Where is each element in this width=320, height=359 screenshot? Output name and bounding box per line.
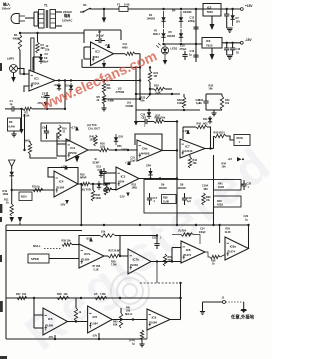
svg-text:R10 1k: R10 1k bbox=[32, 186, 41, 189]
svg-text:LM4558: LM4558 bbox=[140, 151, 150, 155]
diode D12 bbox=[97, 166, 104, 179]
resistor R45 bbox=[214, 132, 227, 149]
svg-text:TL074: TL074 bbox=[183, 253, 191, 257]
svg-text:99Ω: 99Ω bbox=[25, 139, 30, 143]
node label cap bbox=[129, 339, 135, 345]
svg-text:15.8K: 15.8K bbox=[163, 201, 169, 203]
capacitor C15 22pF bbox=[130, 157, 136, 163]
svg-text:R24: R24 bbox=[154, 84, 159, 88]
capacitor C11 zener bbox=[224, 8, 229, 28]
resistor R44 10k bbox=[222, 163, 227, 169]
resistor R12 100k bbox=[3, 189, 9, 196]
wire feedback ic4b bbox=[48, 168, 78, 185]
svg-text:D8: D8 bbox=[180, 183, 184, 187]
wire feedback ic1 bbox=[33, 54, 42, 70]
svg-text:-15V: -15V bbox=[245, 38, 253, 42]
svg-text:+15V: +15V bbox=[86, 237, 93, 241]
svg-text:103k: 103k bbox=[90, 139, 96, 142]
ground arrow led bbox=[163, 58, 168, 65]
capacitor C14 1 bbox=[98, 168, 107, 177]
wire bbox=[140, 262, 182, 285]
power +12V bbox=[125, 161, 132, 166]
resistor R56 1k bbox=[205, 252, 225, 266]
connector input B bbox=[9, 160, 16, 169]
svg-text:1N4002: 1N4002 bbox=[183, 11, 192, 14]
svg-text:D4: D4 bbox=[172, 9, 176, 13]
resistor R57 24.9K bbox=[104, 250, 128, 258]
capacitor C13b 2 bbox=[142, 117, 147, 128]
op-amp IC5c TL084 bbox=[147, 309, 170, 330]
resistor bottom bbox=[139, 330, 144, 347]
diode D11 bbox=[203, 116, 212, 124]
resistor R58 7.5M bbox=[111, 261, 116, 267]
resistor R30 1k bbox=[103, 184, 116, 191]
resistor R47 10k bbox=[16, 293, 27, 300]
svg-text:1k: 1k bbox=[6, 202, 9, 205]
svg-text:16Ω2: 16Ω2 bbox=[218, 186, 225, 189]
wire bbox=[80, 184, 82, 225]
svg-text:OP249: OP249 bbox=[68, 151, 77, 155]
svg-text:100k: 100k bbox=[96, 197, 102, 200]
svg-text:DCM: DCM bbox=[237, 136, 244, 140]
wire bbox=[162, 149, 178, 151]
wire bbox=[90, 8, 119, 10]
svg-text:CAL OUT: CAL OUT bbox=[88, 127, 100, 131]
connector J-in bbox=[11, 14, 25, 24]
svg-text:C21: C21 bbox=[152, 237, 157, 240]
wire bbox=[11, 189, 55, 191]
svg-text:IC5: IC5 bbox=[48, 317, 53, 321]
svg-text:10k: 10k bbox=[64, 293, 69, 296]
svg-text:7.5M: 7.5M bbox=[100, 293, 105, 296]
wire bbox=[176, 122, 178, 226]
op-amp IC3 5534 bbox=[116, 167, 139, 190]
svg-text:7915: 7915 bbox=[206, 44, 213, 48]
svg-text:IC3: IC3 bbox=[121, 174, 126, 178]
svg-text:4990: 4990 bbox=[122, 46, 128, 49]
wire bbox=[220, 224, 250, 249]
node label SCWT bbox=[93, 157, 101, 165]
junction bbox=[103, 8, 105, 10]
svg-text:C2: C2 bbox=[45, 52, 49, 56]
wire feedback ic2 top bbox=[84, 30, 121, 43]
svg-text:100k: 100k bbox=[3, 192, 9, 196]
ground bbox=[102, 18, 107, 23]
resistor R51 130k bbox=[155, 117, 166, 120]
capacitor C5 13uF bbox=[41, 92, 50, 102]
svg-text:TL084: TL084 bbox=[45, 323, 53, 327]
resistor R40 103k bbox=[90, 135, 98, 146]
capacitor C12 2200u bbox=[188, 16, 199, 34]
svg-text:IC2: IC2 bbox=[95, 50, 100, 54]
svg-text:1N4148: 1N4148 bbox=[178, 187, 187, 190]
capacitor C17 2 bbox=[147, 193, 158, 205]
ground arrow bbox=[134, 121, 138, 126]
diode D13 bbox=[10, 169, 14, 179]
wire bbox=[146, 320, 148, 340]
svg-text:1μ: 1μ bbox=[189, 53, 192, 56]
wire bbox=[57, 133, 66, 156]
svg-text:F1: F1 bbox=[117, 3, 121, 7]
resistor R36 100k bbox=[91, 183, 101, 201]
node label note bbox=[230, 314, 255, 321]
capacitor C26 1 bbox=[141, 110, 152, 120]
op-amp IC5b TL084 bbox=[88, 306, 113, 333]
wire bbox=[151, 260, 181, 262]
svg-text:+15: +15 bbox=[228, 157, 233, 161]
resistor R31 10k bbox=[220, 94, 230, 110]
svg-text:NULL1: NULL1 bbox=[125, 314, 133, 316]
wire bbox=[34, 315, 43, 328]
ground bbox=[210, 16, 215, 30]
power +15V bbox=[105, 44, 111, 48]
watermark orange text www.elecfans.com bbox=[38, 47, 159, 113]
wire bbox=[227, 28, 233, 32]
svg-text:TL084: TL084 bbox=[82, 257, 90, 261]
svg-text:2: 2 bbox=[144, 125, 146, 128]
svg-text:R41: R41 bbox=[218, 182, 223, 186]
resistor R48 10k bbox=[57, 293, 69, 300]
lamp LMP1 bbox=[7, 57, 18, 73]
resistor R49b 7.5M bbox=[94, 293, 107, 300]
power -12V bbox=[119, 193, 130, 199]
op-amp IC7a TL084 bbox=[79, 244, 104, 268]
svg-text:2: 2 bbox=[154, 200, 156, 203]
wire null dashed bbox=[44, 248, 62, 250]
svg-text:IC8a: IC8a bbox=[230, 244, 237, 248]
wire bbox=[136, 93, 180, 95]
svg-text:R38: R38 bbox=[163, 197, 168, 200]
svg-text:IC1: IC1 bbox=[34, 76, 39, 80]
power -15V bbox=[60, 200, 69, 207]
svg-text:432Ω: 432Ω bbox=[217, 204, 223, 207]
wire bbox=[115, 236, 121, 258]
diode D8 1N4148 bbox=[178, 183, 187, 190]
capacitor C13 bbox=[189, 49, 199, 62]
resistor R43 79k bbox=[188, 155, 197, 168]
power +15V bbox=[61, 165, 68, 170]
node label B TVD bbox=[81, 188, 91, 192]
wire bbox=[205, 147, 214, 149]
svg-text:TL084: TL084 bbox=[90, 321, 98, 325]
svg-text:63K: 63K bbox=[113, 324, 118, 327]
junction bbox=[162, 8, 164, 10]
regulator IC6 7915 bbox=[202, 38, 241, 49]
svg-text:22k: 22k bbox=[107, 87, 112, 90]
capacitor C1 1u bbox=[5, 99, 18, 112]
svg-text:D9: D9 bbox=[161, 183, 165, 187]
box R41 bbox=[214, 180, 242, 191]
diode CR4 bbox=[146, 165, 153, 179]
svg-text:5.1K: 5.1K bbox=[94, 268, 99, 271]
switch S1 bbox=[80, 3, 91, 13]
svg-text:IC4: IC4 bbox=[59, 180, 64, 184]
svg-text:9Ω1: 9Ω1 bbox=[203, 123, 208, 126]
svg-text:NPNP: NPNP bbox=[80, 178, 87, 180]
svg-text:SCWT: SCWT bbox=[93, 162, 101, 165]
wire bbox=[243, 302, 245, 309]
svg-text:R48: R48 bbox=[57, 293, 62, 296]
svg-text:R26 10k: R26 10k bbox=[62, 240, 72, 243]
wire bbox=[48, 333, 100, 340]
svg-text:1N4148: 1N4148 bbox=[159, 187, 168, 190]
wire bbox=[103, 98, 141, 100]
svg-text:NULL: NULL bbox=[33, 244, 41, 248]
svg-text:10k: 10k bbox=[126, 310, 131, 313]
resistor R26 10k bbox=[62, 240, 80, 247]
resistor R54 7.5M bbox=[172, 230, 200, 245]
wire bbox=[11, 131, 16, 137]
transformer T1 bbox=[39, 4, 56, 29]
node label R61 bbox=[125, 307, 133, 317]
op-amp IC4b TL084 bbox=[54, 171, 78, 197]
wire left frame bbox=[5, 225, 7, 339]
capacitor C18 1u1 bbox=[182, 193, 192, 205]
diode D4 1N4002 bbox=[172, 9, 192, 29]
op-amp IC4 OP249 bbox=[66, 139, 88, 161]
capacitor C8a bbox=[42, 125, 49, 139]
wire main bus bbox=[6, 224, 220, 226]
wire bbox=[23, 114, 25, 151]
node label C19A bbox=[202, 185, 208, 191]
resistor R60 63K bbox=[113, 308, 123, 328]
wire bbox=[64, 79, 66, 110]
svg-text:5534A: 5534A bbox=[32, 81, 40, 85]
svg-text:7815: 7815 bbox=[207, 10, 214, 14]
svg-text:R3: R3 bbox=[9, 120, 13, 124]
resistor R19 bbox=[78, 174, 110, 186]
resistor R8 22k bbox=[102, 79, 111, 93]
wire bbox=[55, 80, 65, 82]
wire ic2 bottom bbox=[82, 59, 140, 67]
zener D7 15V bbox=[230, 8, 240, 26]
svg-text:-15V: -15V bbox=[48, 336, 54, 339]
resistor R59 750 bbox=[163, 254, 172, 266]
wire bbox=[46, 101, 48, 110]
ground arrow bbox=[241, 309, 247, 313]
svg-text:50k: 50k bbox=[141, 100, 146, 103]
wire bbox=[6, 230, 82, 232]
wire rail bbox=[195, 8, 197, 62]
resistor R1 400 bbox=[13, 32, 22, 50]
wire bbox=[20, 108, 22, 129]
node label 24VAC bbox=[62, 10, 73, 23]
svg-text:6.04k: 6.04k bbox=[9, 125, 16, 129]
capacitor C16a 20 bbox=[230, 42, 241, 55]
label fuse bbox=[153, 29, 160, 36]
box SPKR bbox=[28, 254, 49, 263]
fuse F1 bbox=[117, 3, 130, 12]
wire dashed bbox=[226, 301, 244, 303]
wire bbox=[56, 11, 63, 13]
wire bbox=[206, 109, 222, 111]
node label NULL bbox=[33, 244, 41, 248]
svg-text:R47: R47 bbox=[16, 293, 21, 296]
svg-text:1μ: 1μ bbox=[10, 103, 13, 106]
node label R28 5.1K bbox=[93, 265, 101, 271]
resistor R14 31 bbox=[58, 125, 67, 139]
svg-text:R19: R19 bbox=[80, 174, 85, 177]
wire bbox=[49, 258, 79, 260]
wire feedback ic6a bbox=[135, 134, 162, 151]
svg-text:5534: 5534 bbox=[118, 180, 124, 184]
op-amp IC1 5534A bbox=[29, 70, 55, 91]
svg-text:IC5: IC5 bbox=[93, 315, 98, 319]
svg-text:CA3140: CA3140 bbox=[183, 149, 193, 153]
diode D14 bbox=[97, 181, 101, 190]
terminal J1 bbox=[222, 297, 226, 304]
svg-text:R39: R39 bbox=[206, 196, 211, 199]
svg-text:2k: 2k bbox=[97, 99, 100, 102]
svg-text:10k: 10k bbox=[225, 102, 230, 105]
power +15V bbox=[86, 237, 93, 242]
scan edge marks bbox=[0, 63, 7, 359]
svg-text:1μ: 1μ bbox=[132, 342, 135, 345]
ground bbox=[101, 104, 106, 111]
svg-text:+15V: +15V bbox=[245, 4, 253, 8]
svg-text:D5: D5 bbox=[169, 30, 173, 34]
capacitor C15a bbox=[224, 42, 229, 55]
op-amp IC7 CA3140 bbox=[180, 139, 205, 158]
resistor R6 2k bbox=[97, 93, 106, 104]
svg-text:TL084: TL084 bbox=[149, 320, 157, 324]
wire bbox=[6, 338, 147, 340]
wire bbox=[18, 69, 26, 76]
wire bbox=[6, 297, 181, 299]
wire bbox=[115, 234, 158, 240]
wire bbox=[65, 80, 140, 82]
resistor R15 bbox=[25, 139, 57, 159]
wire bbox=[202, 302, 204, 311]
box R3 6.04k bbox=[8, 118, 21, 131]
diode D9 1N4148 bbox=[159, 183, 168, 190]
svg-text:R42: R42 bbox=[197, 123, 202, 126]
wire bbox=[212, 207, 214, 226]
svg-text:C18: C18 bbox=[187, 197, 192, 200]
wire bbox=[34, 12, 38, 26]
svg-text:IC8: IC8 bbox=[186, 248, 191, 252]
svg-text:10k: 10k bbox=[22, 293, 27, 296]
svg-text:1k: 1k bbox=[199, 102, 202, 105]
regulator IC5 7815 bbox=[196, 4, 241, 17]
capacitor C24 1k bbox=[199, 94, 209, 110]
svg-text:J1: J1 bbox=[222, 297, 225, 300]
svg-text:1k: 1k bbox=[212, 263, 215, 266]
svg-text:IC7b: IC7b bbox=[133, 257, 140, 261]
resistor R39 10k bbox=[202, 193, 211, 205]
ground arrow bbox=[75, 156, 80, 163]
svg-text:C13: C13 bbox=[142, 117, 147, 120]
diode D2 bbox=[66, 79, 74, 92]
svg-text:IC6: IC6 bbox=[152, 315, 157, 319]
svg-text:10k: 10k bbox=[222, 166, 227, 169]
svg-text:68Ω-1: 68Ω-1 bbox=[153, 33, 160, 36]
svg-text:T1: T1 bbox=[44, 4, 48, 8]
wire bbox=[162, 43, 196, 45]
wire bbox=[56, 25, 63, 27]
svg-text:R30: R30 bbox=[104, 184, 109, 187]
op-amp IC6a LM4558 bbox=[137, 140, 162, 161]
svg-text:TL074: TL074 bbox=[227, 250, 235, 254]
ground bbox=[211, 110, 216, 116]
resistor R27 10k bbox=[100, 231, 115, 238]
svg-text:LMP1: LMP1 bbox=[7, 57, 15, 61]
svg-text:1N4002: 1N4002 bbox=[167, 35, 176, 38]
capacitor C24b 940pF bbox=[199, 228, 206, 234]
svg-text:2200μ: 2200μ bbox=[188, 20, 195, 23]
box R38 15.8K bbox=[162, 195, 177, 204]
ground arrow bbox=[18, 217, 23, 225]
node label 4.99k bbox=[108, 99, 115, 103]
wire bbox=[136, 109, 200, 111]
svg-text:IC5: IC5 bbox=[207, 6, 212, 10]
wire bbox=[20, 32, 84, 34]
node label A COND bbox=[126, 101, 134, 109]
resistor R7 4990 bbox=[114, 43, 141, 55]
resistor R4 390 bbox=[36, 42, 45, 53]
junction bbox=[180, 8, 182, 10]
ground arrow bbox=[19, 129, 23, 134]
svg-text:CR4: CR4 bbox=[146, 165, 152, 168]
box R40b 432 bbox=[214, 196, 242, 207]
svg-text:NCH: NCH bbox=[21, 195, 27, 199]
svg-text:249Ω: 249Ω bbox=[121, 148, 127, 151]
svg-text:D3: D3 bbox=[55, 83, 59, 87]
wire bbox=[139, 177, 178, 179]
junction bbox=[33, 297, 182, 299]
svg-text:1/4A: 1/4A bbox=[124, 3, 130, 7]
capacitor C7 30.1pF bbox=[95, 30, 105, 43]
svg-text:-15V: -15V bbox=[92, 335, 98, 338]
capacitor C21 .1 bbox=[152, 237, 162, 250]
power +15V bbox=[183, 129, 190, 134]
svg-text:TL084: TL084 bbox=[56, 186, 64, 190]
pot R22 50k bbox=[141, 92, 152, 102]
svg-text:+TJ1: +TJ1 bbox=[105, 45, 111, 47]
resistor R52 100k bbox=[177, 94, 186, 108]
svg-text:LED1: LED1 bbox=[171, 47, 178, 51]
resistor R21 1M bbox=[148, 66, 158, 94]
svg-text:79k: 79k bbox=[193, 162, 198, 165]
svg-text:1/3: 1/3 bbox=[118, 87, 122, 91]
wire bbox=[213, 155, 215, 180]
watermark gray logo text bbox=[16, 135, 284, 359]
ground bbox=[210, 48, 215, 60]
svg-text:383: 383 bbox=[204, 188, 209, 191]
diode D10 bbox=[114, 134, 124, 151]
svg-text:隔离: 隔离 bbox=[64, 13, 71, 18]
svg-text:C24: C24 bbox=[200, 228, 205, 231]
svg-text:270μF: 270μF bbox=[180, 48, 188, 51]
svg-text:-15V: -15V bbox=[60, 203, 66, 207]
wire bbox=[218, 224, 220, 243]
svg-text:1MΩ: 1MΩ bbox=[132, 187, 137, 190]
resistor R32b 1M bbox=[132, 184, 137, 190]
node input label bbox=[2, 2, 11, 11]
wire bbox=[135, 66, 137, 121]
svg-text:940pF: 940pF bbox=[199, 231, 206, 234]
svg-text:SPKR: SPKR bbox=[31, 257, 39, 261]
resistor R32 10k bbox=[209, 84, 214, 91]
diode D5 1N4002 bbox=[161, 29, 175, 42]
svg-text:(A): (A) bbox=[127, 101, 131, 105]
power +17V bbox=[71, 126, 79, 131]
resistor R11 1k bbox=[4, 198, 13, 217]
node label 1/3 ATTEN bbox=[116, 87, 125, 95]
svg-text:C6a: C6a bbox=[142, 146, 148, 150]
op-amp IC2 5534 bbox=[84, 42, 114, 66]
svg-text:+15V: +15V bbox=[183, 129, 190, 133]
